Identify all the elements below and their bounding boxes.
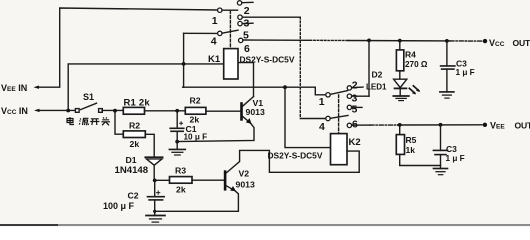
relay K2 throw 2 bbox=[347, 86, 351, 90]
wire branch to K2 coil left bbox=[285, 87, 331, 147]
svg-text:6: 6 bbox=[244, 43, 250, 55]
node junction C1- / V1 emitter bbox=[175, 140, 179, 144]
svg-text:C3: C3 bbox=[446, 144, 457, 154]
switch S1 bbox=[75, 109, 79, 113]
svg-text:5: 5 bbox=[352, 103, 358, 115]
relay K1 pole 4 bbox=[218, 31, 222, 35]
node Vcc IN terminal arrow bbox=[34, 109, 40, 112]
svg-text:R2: R2 bbox=[129, 121, 140, 131]
wire Vee IN to top rail bbox=[39, 8, 219, 87]
resistor R2 upper bbox=[185, 107, 206, 114]
relay K2 coil bbox=[331, 134, 348, 165]
svg-text:2: 2 bbox=[352, 79, 358, 91]
capacitor C2 bbox=[154, 180, 156, 196]
wire S1 to R1 bbox=[102, 109, 123, 111]
resistor R4 bbox=[399, 41, 401, 50]
node junction rail/R4 bbox=[398, 39, 402, 43]
node junction D1/C2/R3 bbox=[153, 179, 157, 183]
resistor R1 bbox=[123, 107, 144, 114]
svg-text:100 μ F: 100 μ F bbox=[103, 201, 135, 211]
bottom page rule bbox=[0, 224, 58, 226]
relay K2 contacts pole 1 bbox=[326, 93, 330, 97]
svg-text:2k: 2k bbox=[176, 185, 186, 195]
ground below C2 bbox=[146, 215, 165, 217]
ground below C1 bbox=[169, 148, 185, 150]
relay K1 coil bbox=[224, 49, 238, 79]
svg-text:5: 5 bbox=[243, 29, 249, 41]
resistor R5 bbox=[399, 125, 401, 135]
wire to K1 pole 4 bbox=[184, 32, 218, 34]
node Vee IN terminal arrow bbox=[34, 86, 40, 89]
wire R3 to V2 base bbox=[192, 179, 224, 181]
resistor R2 lower bbox=[123, 131, 145, 138]
relay K2 throw 3 bbox=[347, 94, 351, 98]
svg-text:9013: 9013 bbox=[236, 180, 255, 190]
svg-text:1 μ F: 1 μ F bbox=[446, 154, 465, 163]
svg-text:C2: C2 bbox=[128, 191, 139, 201]
node junction C1 tap bbox=[175, 109, 179, 113]
svg-text:1N4148: 1N4148 bbox=[115, 165, 149, 176]
relay K2 throw 6 feeding VEE OUT rail bbox=[347, 123, 351, 127]
node junction rail87/K2coil branch bbox=[283, 85, 287, 89]
svg-text:R1 2k: R1 2k bbox=[124, 98, 151, 109]
svg-text:R4: R4 bbox=[405, 50, 416, 60]
wire riser to K1 coil left bbox=[68, 64, 224, 111]
svg-text:VEE: VEE bbox=[490, 121, 505, 131]
svg-text:D2: D2 bbox=[372, 70, 383, 80]
relay K1 throw 6 feeding Vcc OUT rail bbox=[239, 38, 243, 42]
svg-text:2k: 2k bbox=[130, 139, 140, 149]
transistor V1 bbox=[240, 102, 243, 121]
svg-text:VCC: VCC bbox=[489, 38, 505, 48]
relay K1 throw 3 wire to K2 pole 4 bbox=[238, 15, 242, 19]
mechanical link K2 bbox=[338, 95, 340, 134]
wire Vcc IN to S1 bbox=[39, 109, 77, 111]
ground below C3 bottom bbox=[434, 168, 448, 170]
svg-text:1: 1 bbox=[212, 15, 218, 27]
node junction C2/V2 emitter return bbox=[153, 210, 156, 213]
node Vcc OUT bullet bbox=[483, 39, 487, 43]
relay K1 throw (row 4) bbox=[238, 21, 242, 25]
svg-text:D1: D1 bbox=[126, 155, 137, 165]
node junction S1/R2lower bbox=[113, 109, 117, 113]
node VEE OUT bullet bbox=[483, 123, 487, 127]
relay K1 contact pole 1 bbox=[218, 8, 222, 12]
capacitor C3 top bbox=[446, 41, 448, 66]
svg-text:S1: S1 bbox=[83, 92, 94, 102]
svg-text:6: 6 bbox=[352, 118, 358, 130]
node junction C3 bottom tap bbox=[439, 123, 443, 127]
svg-text:C3: C3 bbox=[456, 59, 467, 69]
wire riser to K2 throw 3 bbox=[368, 40, 370, 96]
svg-text:1 μ F: 1 μ F bbox=[456, 68, 475, 77]
svg-text:OUT: OUT bbox=[515, 121, 530, 131]
capacitor C1 bbox=[176, 111, 178, 129]
relay K1 throw 2 bbox=[237, 1, 241, 5]
svg-text:DS2Y-S-DC5V: DS2Y-S-DC5V bbox=[268, 151, 323, 161]
svg-text:2: 2 bbox=[244, 5, 250, 17]
svg-text:V2: V2 bbox=[239, 169, 250, 179]
svg-text:R5: R5 bbox=[406, 135, 417, 145]
node junction Vcc/K1coil riser bbox=[66, 109, 70, 113]
wire K2 coil right to V2 collector bbox=[226, 150, 359, 172]
resistor R3 bbox=[155, 179, 170, 181]
svg-text:4: 4 bbox=[211, 35, 217, 47]
node junction rail/K2 throws riser bbox=[367, 39, 371, 43]
svg-text:R2: R2 bbox=[190, 96, 201, 106]
ground below C3 top bbox=[440, 91, 454, 93]
svg-text:1k: 1k bbox=[406, 145, 416, 155]
mechanical link K1 bbox=[229, 11, 231, 49]
svg-text:4: 4 bbox=[319, 121, 325, 133]
relay K2 throw 5 bbox=[347, 105, 351, 109]
ground below LED bbox=[393, 95, 409, 97]
svg-text:R3: R3 bbox=[175, 166, 186, 176]
capacitor C3 bottom bbox=[440, 125, 442, 151]
transistor V2 bbox=[224, 170, 227, 190]
node junction rail/C3 bbox=[445, 39, 449, 43]
svg-text:270 Ω: 270 Ω bbox=[405, 60, 428, 69]
wire mid rail y87 bbox=[183, 87, 326, 95]
LED rays bbox=[409, 86, 419, 94]
LED D2 bbox=[394, 79, 407, 87]
svg-text:10 μ F: 10 μ F bbox=[184, 133, 208, 142]
svg-text:LED1: LED1 bbox=[366, 83, 387, 92]
svg-text:OUT: OUT bbox=[513, 38, 530, 48]
diode D1 bbox=[145, 156, 162, 158]
wire R2lower to D1 bbox=[145, 134, 154, 157]
wire R2upper to V1 base bbox=[206, 110, 240, 112]
svg-text:K1: K1 bbox=[208, 54, 221, 65]
svg-text:9013: 9013 bbox=[246, 107, 265, 117]
svg-text:2k: 2k bbox=[190, 115, 200, 125]
wire riser x183 pole4 to rail87 bbox=[183, 33, 185, 87]
wire S1 branch down to R2 lower bbox=[115, 111, 123, 134]
svg-text:DS2Y-S-DC5V: DS2Y-S-DC5V bbox=[240, 55, 295, 65]
svg-text:VCC IN: VCC IN bbox=[1, 106, 28, 116]
node junction coil wire / pole4 riser bbox=[182, 62, 186, 66]
node junction R5 tap bbox=[398, 123, 402, 127]
svg-text:1: 1 bbox=[319, 96, 325, 108]
relay K2 pole 4 bbox=[326, 116, 330, 120]
svg-text:3: 3 bbox=[244, 17, 250, 29]
label 电源开关 bbox=[67, 117, 110, 125]
svg-text:VEE IN: VEE IN bbox=[1, 83, 27, 93]
wire R1 to R2upper bbox=[145, 110, 186, 112]
svg-text:K2: K2 bbox=[349, 137, 361, 148]
